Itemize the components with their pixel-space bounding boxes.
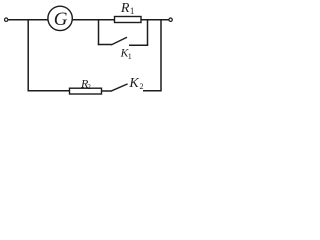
switch K1 (parallel with R1) bbox=[98, 20, 148, 46]
label R1 bbox=[120, 1, 134, 16]
terminal right bbox=[169, 18, 172, 21]
wire: galvanometer to resistor R1 bbox=[72, 19, 114, 21]
label K1 bbox=[120, 48, 132, 61]
label K2 bbox=[128, 76, 143, 91]
galvanometer G bbox=[48, 6, 72, 30]
wire: switch K2 to bottom-right corner bbox=[143, 90, 162, 92]
wire: right vertical (top rail down to bottom rail) bbox=[160, 20, 162, 91]
svg-text:R: R bbox=[120, 1, 130, 16]
svg-text:2: 2 bbox=[87, 83, 91, 91]
wire: resistor R1 to right terminal bbox=[141, 19, 169, 21]
switch K2 blade bbox=[111, 84, 128, 91]
svg-text:1: 1 bbox=[128, 52, 132, 61]
wire: left terminal to galvanometer bbox=[8, 19, 48, 21]
label R2 bbox=[80, 76, 91, 91]
svg-text:2: 2 bbox=[140, 82, 144, 91]
resistor R2 bbox=[70, 88, 102, 94]
svg-text:K: K bbox=[128, 76, 139, 91]
wire: bottom rail left (corner to resistor R2) bbox=[28, 90, 70, 92]
resistor R1 bbox=[115, 17, 142, 23]
svg-text:1: 1 bbox=[130, 6, 135, 16]
terminal left bbox=[5, 18, 8, 21]
svg-text:G: G bbox=[54, 9, 68, 30]
wire: left vertical branch (node A down to bottom rail) bbox=[27, 20, 29, 91]
wire: resistor R2 to switch K2 pivot bbox=[102, 90, 111, 92]
